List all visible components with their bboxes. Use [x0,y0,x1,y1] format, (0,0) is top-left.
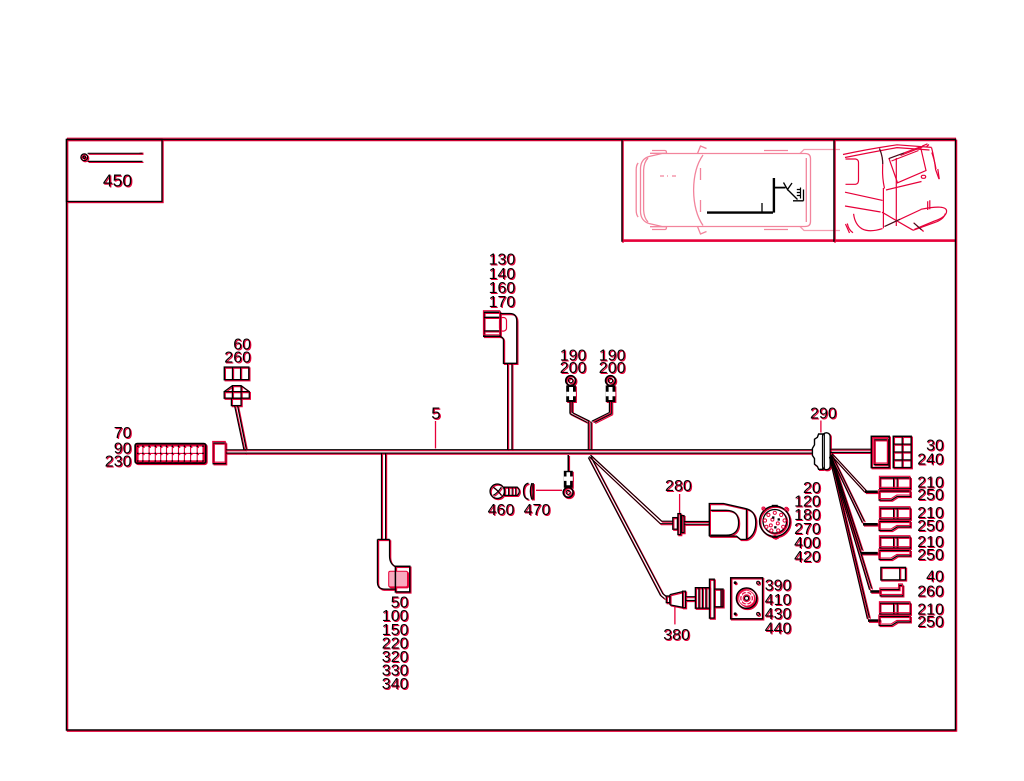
door bottom verticals [928,200,930,210]
inset divider left [621,140,623,242]
connector 30/240 [871,436,911,467]
drop wire to elbow 50 [381,454,383,540]
hood line [644,158,648,222]
main frame [67,140,956,731]
van body outline [641,154,811,227]
ring terminal 190/200 left [566,376,576,402]
screw 460 [490,484,519,498]
wires grommet to 30/240 [830,449,871,452]
elbow 130 inner pink plug [500,318,507,332]
fuse box 70/90/230 [135,444,206,464]
part 280 (small grommet) [673,514,684,535]
cowl ticks [700,168,702,180]
connector housing (20/120/180/270) [709,504,756,540]
connector at harness left end [213,443,225,464]
pointer line 380 [674,606,676,625]
main trunk 5 [245,449,814,451]
svg-text:170: 170 [489,294,516,311]
frame red offset [68,138,956,731]
crimson accents: fuse grid [136,444,205,462]
front wheel bumps [650,153,667,226]
wire elbow to trunk [507,364,509,450]
svg-text:340: 340 [382,676,409,693]
svg-text:470: 470 [524,502,551,519]
wire: connector to trunk [226,449,246,451]
380 cone boot [666,579,723,618]
van harness route (black, inside inset) [707,178,804,213]
bumper [915,207,947,229]
connector 40/260 [880,567,905,596]
wheel arch [854,214,883,231]
wire Y terminals [569,402,571,414]
hanging terminal at trunk [563,455,573,497]
clip 470 [524,483,534,499]
front bumper [636,163,638,217]
grommet 290 [812,433,830,470]
svg-text:200: 200 [599,360,626,377]
svg-text:250: 250 [917,614,944,631]
svg-text:440: 440 [765,620,792,637]
connector 60/260 cells [224,367,249,380]
fan wires from grommet [830,454,881,621]
svg-text:5: 5 [431,404,440,423]
rear wheel bumps [764,151,788,230]
lower door edge [885,210,922,227]
inset box 450 [67,140,163,202]
elbow connector 130-170 head [484,312,500,336]
fuse grid dots [137,445,204,462]
cable 450 symbol [81,154,88,161]
elbow 130-170 boot [500,314,517,364]
connector 60/260 plug [224,386,249,399]
panel ribs [901,147,923,156]
elbow 50 pink plug [389,571,408,587]
pin insert 20-420 [760,505,790,539]
mirror bottom [698,227,707,235]
svg-text:420: 420 [794,549,821,566]
svg-text:260: 260 [224,350,251,367]
fan wire to 280 [591,455,673,521]
dark accents on rear van [880,149,922,230]
svg-text:200: 200 [560,360,587,377]
svg-text:460: 460 [488,502,515,519]
handle [921,175,925,178]
left cab window [846,159,859,184]
svg-text:290: 290 [810,406,837,423]
A-pillar curve [880,149,885,189]
pointer line 5 [435,421,437,449]
mirror top [698,146,707,154]
cable 450 red tip [140,152,144,154]
windshield curve [694,155,703,226]
inset bottom crimson bar [622,239,956,242]
svg-text:250: 250 [917,518,944,535]
tail diagonal [914,223,924,232]
pointer line 290 [820,421,822,433]
pointer line 280 [679,494,681,513]
elbow 50 head [395,566,409,592]
elbow 50 boot [378,539,397,589]
ring terminal 190/200 right [606,376,616,402]
roof edges [843,145,932,155]
crease lines [845,192,883,200]
svg-text:450: 450 [103,171,132,191]
svg-text:250: 250 [917,487,944,504]
door window [889,147,926,183]
wire 60/260 to trunk [235,406,244,450]
door verticals [882,188,884,228]
plate 390-440 [731,578,763,619]
rear door lines [805,158,807,222]
svg-text:250: 250 [917,547,944,564]
misc dashes [660,175,678,177]
svg-text:380: 380 [663,627,690,644]
fan wire to 380 [591,457,667,597]
crimson offset accents [213,311,910,624]
link 470 to clip [536,489,562,491]
svg-text:230: 230 [105,454,132,471]
svg-text:260: 260 [917,584,944,601]
right rear corner [932,148,940,180]
svg-text:240: 240 [917,451,944,468]
svg-text:280: 280 [665,478,692,495]
inset divider middle [833,140,835,242]
